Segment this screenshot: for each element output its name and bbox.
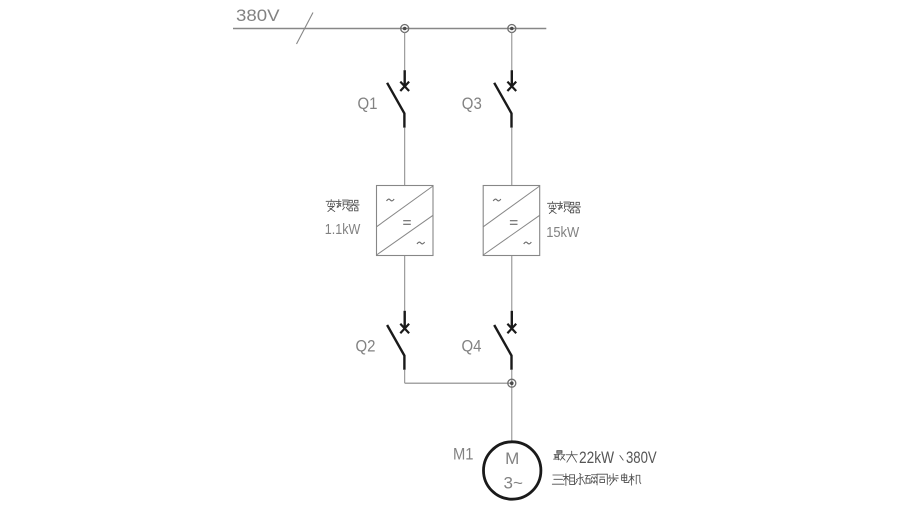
svg-text:3~: 3~ <box>504 474 523 493</box>
svg-text:M1: M1 <box>453 445 474 464</box>
svg-text:Q1: Q1 <box>358 94 378 113</box>
svg-text:22kW: 22kW <box>579 449 614 467</box>
svg-text:Q3: Q3 <box>462 94 482 113</box>
svg-text:1.1kW: 1.1kW <box>325 221 361 238</box>
svg-text:Q4: Q4 <box>462 337 482 356</box>
svg-text:380V: 380V <box>626 449 657 467</box>
svg-text:Q2: Q2 <box>356 337 376 356</box>
svg-text:15kW: 15kW <box>546 224 580 241</box>
svg-text:M: M <box>505 449 519 468</box>
svg-text:380V: 380V <box>236 6 280 25</box>
